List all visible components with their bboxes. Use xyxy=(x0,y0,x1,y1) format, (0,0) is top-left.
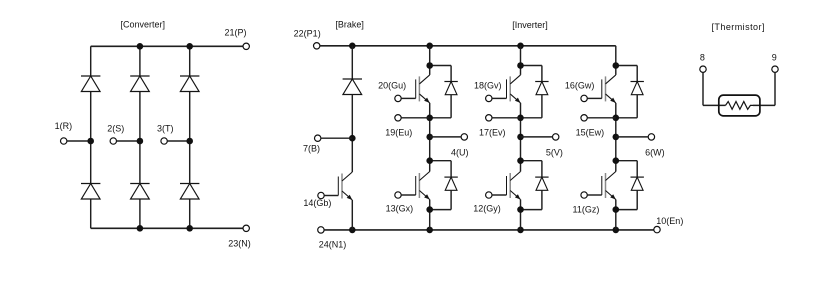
svg-text:[Brake]: [Brake] xyxy=(335,20,364,30)
svg-text:19(Eu): 19(Eu) xyxy=(385,127,412,137)
svg-text:13(Gx): 13(Gx) xyxy=(386,203,414,213)
svg-text:9: 9 xyxy=(772,53,777,63)
svg-text:4(U): 4(U) xyxy=(451,147,469,157)
svg-text:1(R): 1(R) xyxy=(55,121,73,131)
svg-text:[Converter]: [Converter] xyxy=(121,20,166,30)
svg-text:14(Gb): 14(Gb) xyxy=(303,198,331,208)
svg-text:10(En): 10(En) xyxy=(656,216,683,226)
svg-text:11(Gz): 11(Gz) xyxy=(573,205,600,215)
svg-text:17(Ev): 17(Ev) xyxy=(479,127,506,137)
svg-text:23(N): 23(N) xyxy=(228,239,251,249)
svg-text:[Thermistor]: [Thermistor] xyxy=(711,22,764,32)
svg-text:22(P1): 22(P1) xyxy=(294,29,321,39)
svg-text:15(Ew): 15(Ew) xyxy=(576,127,605,137)
svg-text:21(P): 21(P) xyxy=(224,28,246,38)
svg-text:7(B): 7(B) xyxy=(303,144,320,154)
svg-text:24(N1): 24(N1) xyxy=(319,239,347,249)
svg-text:18(Gv): 18(Gv) xyxy=(474,81,502,91)
svg-text:5(V): 5(V) xyxy=(546,147,563,157)
svg-text:[Inverter]: [Inverter] xyxy=(512,20,548,30)
svg-text:8: 8 xyxy=(700,53,705,63)
svg-text:2(S): 2(S) xyxy=(107,123,124,133)
svg-text:16(Gw): 16(Gw) xyxy=(565,81,595,91)
svg-text:6(W): 6(W) xyxy=(645,147,665,157)
svg-text:3(T): 3(T) xyxy=(157,123,174,133)
svg-text:12(Gy): 12(Gy) xyxy=(473,203,501,213)
svg-text:20(Gu): 20(Gu) xyxy=(378,81,406,91)
